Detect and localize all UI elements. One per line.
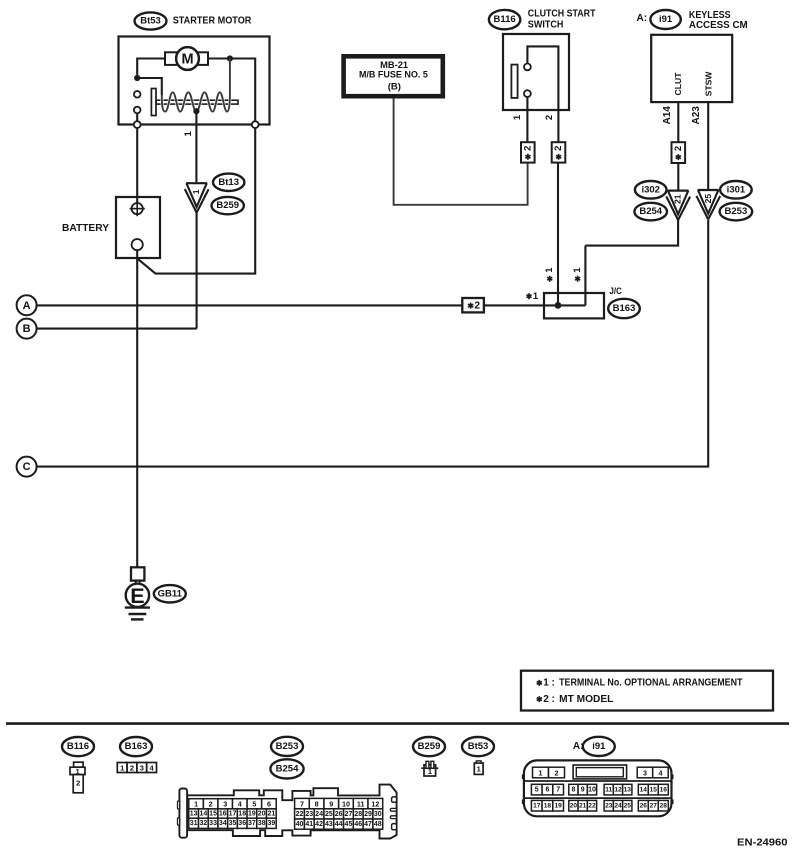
- svg-text:2: 2: [673, 146, 684, 151]
- junction dot motor-left: [134, 75, 140, 81]
- wire i302 arrow to J/C riser: [585, 220, 678, 246]
- svg-text:16: 16: [219, 810, 227, 817]
- case terminal circle right: [252, 121, 259, 128]
- solenoid coil winding: [162, 92, 230, 111]
- svg-text:(B): (B): [388, 82, 401, 93]
- MT-model box *2 on pin 1: [521, 142, 535, 162]
- connector label B163: [608, 299, 640, 318]
- wire motor left to contact: [137, 59, 165, 75]
- svg-text:8: 8: [571, 787, 575, 794]
- svg-text:i91: i91: [659, 14, 673, 25]
- svg-text:1: 1: [543, 678, 549, 689]
- contact circle upper: [134, 91, 141, 98]
- svg-text:25: 25: [325, 811, 333, 818]
- svg-text:39: 39: [267, 820, 275, 827]
- svg-text:B259: B259: [418, 741, 441, 752]
- fuse box MB-21 (thick border): [341, 54, 445, 99]
- svg-text:2: 2: [544, 115, 555, 120]
- svg-text:10: 10: [342, 800, 350, 809]
- svg-text:18: 18: [544, 803, 552, 810]
- svg-text:24: 24: [315, 811, 323, 818]
- svg-text:29: 29: [364, 811, 372, 818]
- connector label B163 (bottom): [120, 737, 152, 756]
- junction connector J/C box: [544, 293, 604, 318]
- svg-text:41: 41: [305, 821, 313, 828]
- svg-text:6: 6: [545, 787, 549, 794]
- svg-text:5: 5: [535, 787, 539, 794]
- svg-text:24: 24: [614, 803, 622, 810]
- connector label B116: [489, 10, 520, 29]
- svg-text::: :: [552, 694, 555, 705]
- label *1 rotated on clutch wire: [547, 276, 552, 282]
- connector label B253: [720, 203, 753, 221]
- svg-text:4: 4: [658, 768, 662, 777]
- svg-text:46: 46: [354, 821, 362, 828]
- svg-text:43: 43: [325, 821, 333, 828]
- svg-text:2: 2: [76, 779, 80, 788]
- svg-text:27: 27: [650, 803, 658, 810]
- wire pin 2 down: [557, 110, 559, 142]
- svg-text:B254: B254: [276, 763, 299, 774]
- svg-text:Bt13: Bt13: [218, 177, 239, 188]
- connector label B259: [212, 197, 244, 214]
- connector label i91: [650, 10, 680, 29]
- svg-text:B259: B259: [216, 200, 239, 211]
- connector label i302: [635, 181, 667, 199]
- svg-text:Bt53: Bt53: [468, 741, 489, 752]
- svg-text:11: 11: [357, 800, 365, 809]
- starter motor outline box: [119, 37, 270, 125]
- wire row B: [37, 328, 197, 330]
- wire MB-21 to clutch pin 1: [394, 99, 528, 205]
- wire *2 to arrow i302: [677, 163, 679, 191]
- svg-text:EN-24960: EN-24960: [737, 836, 788, 848]
- svg-text:C: C: [23, 461, 31, 473]
- wire dot down to coil end: [229, 59, 231, 96]
- svg-text:1: 1: [477, 765, 481, 774]
- svg-text:21: 21: [673, 194, 683, 204]
- connector label i91 (bottom): [583, 737, 615, 756]
- svg-text:B116: B116: [494, 14, 516, 25]
- svg-text:TERMINAL No. OPTIONAL ARRANGEM: TERMINAL No. OPTIONAL ARRANGEMENT: [559, 678, 742, 689]
- svg-text:19: 19: [248, 810, 256, 817]
- legend line *1: [537, 680, 542, 686]
- svg-text:33: 33: [209, 820, 217, 827]
- svg-text:37: 37: [248, 820, 256, 827]
- connector label B254: [634, 203, 667, 221]
- ground neck ticks: [136, 581, 140, 585]
- connector view B253/B254 left cap: [179, 789, 187, 838]
- svg-text::: :: [552, 678, 555, 689]
- svg-text:3: 3: [140, 763, 144, 772]
- connector arrow i301/B253 pin 25: [698, 189, 719, 191]
- svg-text:B253: B253: [276, 741, 299, 752]
- node C: [17, 457, 37, 477]
- svg-text:B: B: [23, 323, 31, 335]
- ground label GB11: [154, 585, 186, 602]
- svg-text:47: 47: [364, 821, 372, 828]
- wire clutch pin2 to J/C: [557, 163, 559, 306]
- svg-text:10: 10: [588, 787, 596, 794]
- connector label B259 (bottom): [413, 737, 445, 756]
- svg-text:20: 20: [258, 810, 266, 817]
- svg-text:STSW: STSW: [704, 71, 714, 97]
- svg-text:STARTER MOTOR: STARTER MOTOR: [173, 16, 252, 27]
- svg-text:ACCESS CM: ACCESS CM: [689, 20, 748, 31]
- svg-text:6: 6: [267, 800, 271, 809]
- wire battery minus to ground: [136, 250, 138, 567]
- wire starter case left to battery plus: [136, 128, 138, 203]
- wire row C to keyless STSW: [37, 220, 709, 467]
- connector label Bt13: [213, 174, 244, 191]
- node A: [17, 295, 37, 315]
- svg-text:J/C: J/C: [610, 286, 623, 296]
- svg-text:16: 16: [660, 787, 668, 794]
- svg-text:4: 4: [238, 800, 242, 809]
- svg-text:CLUT: CLUT: [673, 72, 683, 96]
- wire row A continues to J/C: [484, 304, 586, 306]
- svg-text:28: 28: [660, 803, 668, 810]
- svg-text:1: 1: [512, 114, 523, 120]
- legend box: [521, 671, 773, 711]
- battery box: [116, 197, 160, 258]
- svg-text:21: 21: [267, 810, 275, 817]
- wire i302 to J/C: [584, 246, 586, 306]
- ground hatch lines: [125, 608, 150, 620]
- connector label i301: [720, 181, 752, 199]
- wire switch lower contact to pin 1: [526, 97, 528, 142]
- svg-text:1: 1: [544, 267, 555, 273]
- svg-text:M: M: [181, 51, 193, 67]
- svg-text:23: 23: [605, 803, 613, 810]
- svg-text:25: 25: [703, 194, 713, 204]
- svg-text:MT MODEL: MT MODEL: [559, 694, 613, 705]
- wire row A: [37, 304, 463, 306]
- svg-text:A: A: [23, 300, 31, 312]
- wire contact to case terminal: [136, 113, 138, 121]
- wire arrow to row B: [196, 213, 198, 329]
- svg-text:2: 2: [543, 694, 549, 705]
- svg-text:45: 45: [345, 821, 353, 828]
- svg-text:1: 1: [572, 267, 583, 273]
- connector arrow Bt13/B259 on terminal-1 wire: [186, 182, 207, 184]
- svg-text:2: 2: [553, 146, 564, 151]
- case terminal circle left: [134, 121, 141, 128]
- separator line: [6, 722, 789, 725]
- junction dot in J/C: [555, 302, 562, 309]
- svg-text:2: 2: [522, 146, 533, 151]
- svg-text:44: 44: [335, 821, 343, 828]
- wire A14 down: [677, 102, 679, 142]
- connector view B253/B254 cells right block: [295, 798, 383, 808]
- svg-text:1: 1: [428, 767, 432, 776]
- svg-text:BATTERY: BATTERY: [62, 223, 109, 234]
- svg-text:1: 1: [539, 768, 543, 777]
- legend line *2: [537, 696, 542, 702]
- ground terminal square: [131, 567, 144, 580]
- svg-text:9: 9: [581, 787, 585, 794]
- junction dot motor-right: [227, 55, 233, 61]
- contact circle lower: [134, 107, 141, 114]
- svg-text:5: 5: [252, 800, 256, 809]
- svg-text:25: 25: [624, 803, 632, 810]
- svg-text:B163: B163: [125, 741, 148, 752]
- svg-text:19: 19: [554, 803, 562, 810]
- MT-model box *2 on pin 2: [552, 142, 566, 162]
- switch contact lower: [524, 90, 531, 97]
- connector view B116: [70, 762, 85, 793]
- MT-model box *2 on row A: [462, 298, 484, 312]
- svg-text:1: 1: [183, 130, 194, 136]
- svg-text:22: 22: [296, 811, 304, 818]
- svg-text:40: 40: [296, 821, 304, 828]
- svg-text:31: 31: [190, 820, 198, 827]
- ground circle E: [126, 584, 149, 609]
- svg-text:13: 13: [190, 810, 198, 817]
- connector view B259: [421, 761, 438, 776]
- motor M armature rect: [165, 52, 208, 65]
- svg-text:B254: B254: [639, 206, 662, 217]
- svg-text:i302: i302: [641, 184, 660, 195]
- svg-text:CLUTCH START: CLUTCH START: [528, 9, 596, 20]
- svg-text:9: 9: [329, 800, 333, 809]
- wire switch internal to pin 2: [527, 46, 558, 110]
- node B: [17, 319, 37, 339]
- svg-text:3: 3: [643, 768, 647, 777]
- svg-text:15: 15: [209, 810, 217, 817]
- svg-text:17: 17: [229, 810, 237, 817]
- svg-text:B253: B253: [725, 206, 748, 217]
- svg-text:26: 26: [640, 803, 648, 810]
- svg-text:8: 8: [315, 800, 319, 809]
- svg-text:38: 38: [258, 820, 266, 827]
- svg-text:20: 20: [570, 803, 578, 810]
- svg-text:A23: A23: [691, 106, 702, 125]
- svg-text:27: 27: [345, 811, 353, 818]
- svg-text:A14: A14: [662, 106, 673, 125]
- svg-text:13: 13: [624, 787, 632, 794]
- battery minus terminal: [132, 239, 143, 250]
- svg-text:SWITCH: SWITCH: [528, 20, 564, 31]
- svg-text:E: E: [130, 584, 144, 608]
- connector view B253/B254 cells left block: [189, 799, 276, 809]
- connector label B254 (bottom): [270, 759, 303, 778]
- svg-text:21: 21: [579, 803, 587, 810]
- solenoid plunger bar: [151, 89, 156, 116]
- connector view B253/B254 outline: [187, 785, 397, 839]
- svg-text:11: 11: [605, 787, 612, 794]
- svg-text:B116: B116: [67, 741, 89, 752]
- svg-text:1: 1: [194, 800, 198, 809]
- connector view i91 middle row cells: [531, 784, 563, 795]
- keyless access CM box: [651, 35, 732, 102]
- solenoid shaft: [156, 100, 238, 104]
- motor M circle: [176, 47, 199, 70]
- svg-text:3: 3: [223, 800, 227, 809]
- connector view B163: [117, 763, 156, 773]
- connector view i91 outline: [524, 760, 672, 816]
- connector view i91 bottom row cells: [531, 800, 563, 811]
- battery plus terminal: [130, 201, 145, 216]
- wire A23 down: [707, 102, 709, 190]
- svg-text:28: 28: [354, 811, 362, 818]
- svg-text:7: 7: [300, 800, 304, 809]
- svg-text:35: 35: [229, 820, 237, 827]
- connector label Bt53 (starter motor): [135, 12, 167, 29]
- wire motor right to case: [208, 59, 255, 122]
- connector label B116 (bottom): [62, 737, 94, 756]
- connector view Bt53: [474, 761, 483, 775]
- svg-text:i301: i301: [727, 184, 746, 195]
- wire terminal 1 down from coil: [195, 111, 197, 183]
- connector arrow i302/B254 pin 21: [668, 190, 689, 192]
- connector view i91 top row cells: [533, 767, 565, 778]
- svg-text:12: 12: [614, 787, 622, 794]
- junction dot on coil (terminal 1): [193, 108, 199, 114]
- label *1 rotated on i302 wire: [575, 276, 580, 282]
- wire dot to solenoid coil feed: [137, 78, 162, 95]
- svg-text:i91: i91: [592, 741, 606, 752]
- svg-text:36: 36: [238, 820, 246, 827]
- connector view B253/B254 right-edge tabs: [392, 797, 397, 802]
- svg-text:15: 15: [650, 787, 658, 794]
- svg-text:2: 2: [209, 800, 213, 809]
- svg-text:2: 2: [555, 768, 559, 777]
- svg-text:1: 1: [533, 291, 539, 302]
- svg-text:14: 14: [640, 787, 648, 794]
- svg-text:12: 12: [371, 800, 379, 809]
- svg-text:7: 7: [556, 787, 560, 794]
- switch actuator bar: [511, 65, 517, 98]
- svg-text:32: 32: [199, 820, 207, 827]
- clutch start switch box: [503, 34, 569, 110]
- svg-text:1: 1: [120, 763, 124, 772]
- svg-text:Bt53: Bt53: [140, 16, 161, 27]
- svg-text:34: 34: [219, 820, 227, 827]
- svg-text:17: 17: [533, 803, 541, 810]
- svg-text:GB11: GB11: [158, 588, 183, 599]
- svg-text:30: 30: [374, 811, 382, 818]
- connector label B253 (bottom): [271, 737, 303, 756]
- svg-text:2: 2: [130, 763, 134, 772]
- MT-model box *2 on A14: [672, 142, 686, 163]
- switch contact upper: [524, 64, 531, 71]
- wire starter case right down: [137, 128, 255, 274]
- svg-text:M/B FUSE NO. 5: M/B FUSE NO. 5: [359, 70, 429, 81]
- svg-text:23: 23: [305, 811, 313, 818]
- svg-text:18: 18: [238, 810, 246, 817]
- svg-text:2: 2: [475, 300, 481, 311]
- svg-text:14: 14: [199, 810, 207, 817]
- svg-text:B163: B163: [613, 303, 636, 314]
- label *1 left of J/C: [526, 293, 531, 299]
- svg-text:1: 1: [191, 189, 201, 194]
- svg-text:A:: A:: [573, 741, 584, 752]
- svg-text:26: 26: [335, 811, 343, 818]
- svg-text:22: 22: [588, 803, 596, 810]
- svg-text:48: 48: [374, 821, 382, 828]
- svg-text:A:: A:: [637, 13, 648, 24]
- connector label Bt53 (bottom): [462, 737, 494, 756]
- svg-text:42: 42: [315, 821, 323, 828]
